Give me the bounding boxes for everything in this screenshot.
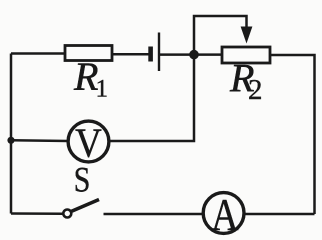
- wire: bottom side left segment to switch: [11, 212, 63, 215]
- battery cell: long thin plate: [158, 33, 160, 72]
- wire: R2 to top-right corner and right vertical side: [270, 55, 315, 214]
- wire: switch to ammeter: [104, 213, 204, 216]
- svg-text:S: S: [74, 161, 91, 200]
- wire: voltmeter right to node under battery junction: [109, 55, 194, 141]
- svg-text:1: 1: [96, 76, 109, 103]
- svg-text:2: 2: [248, 74, 263, 106]
- wire: R1 to battery: [112, 53, 149, 56]
- node B: junction dot at battery / wiper / voltmeter: [189, 50, 199, 60]
- resistor R1: [65, 46, 112, 61]
- rheostat R2 box: [222, 47, 270, 63]
- switch S: pivot circle: [63, 210, 71, 218]
- wiper arrowhead onto R2: [241, 27, 253, 44]
- svg-text:A: A: [211, 191, 239, 239]
- battery cell: short thick plate: [148, 47, 153, 62]
- wire: left vertical side: [10, 54, 13, 214]
- wire: ammeter to bottom-right corner: [244, 213, 315, 216]
- switch S: open lever arm: [71, 200, 99, 212]
- wire: voltmeter branch left: [11, 139, 68, 142]
- ammeter A: circle: [203, 193, 244, 234]
- svg-text:V: V: [75, 121, 102, 166]
- wire: rheostat wiper branch from node up and over: [194, 16, 247, 55]
- voltmeter V: circle: [68, 121, 109, 162]
- wire: battery to node, node to R2: [159, 53, 222, 56]
- node A: junction dot on left wire at voltmeter tap: [7, 137, 14, 144]
- wire: top side from left corner to R1: [11, 52, 65, 55]
